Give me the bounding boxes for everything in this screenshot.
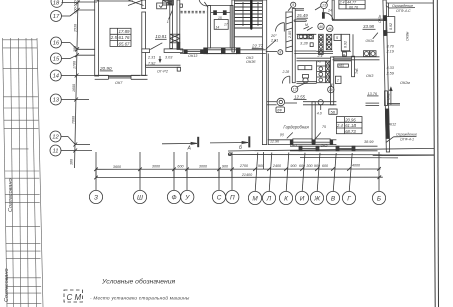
- door jamb big room: [142, 49, 150, 53]
- wall stub left of outer wall: [164, 49, 183, 53]
- room label 20.90: [99, 66, 112, 71]
- double circle node: [277, 98, 285, 106]
- svg-text:2.59: 2.59: [386, 72, 395, 76]
- svg-text:2.4: 2.4: [339, 1, 345, 5]
- door swing arc left of shaft: [199, 0, 207, 6]
- svg-text:75: 75: [322, 125, 326, 129]
- left wall: [95, 0, 99, 76]
- bubble 16: [51, 37, 62, 48]
- svg-text:ПБ3: ПБ3: [290, 144, 297, 148]
- svg-text:600: 600: [322, 164, 329, 168]
- sheet right border: [433, 0, 435, 307]
- hallway inner wall: [170, 5, 173, 48]
- НВ1 box: [338, 64, 349, 67]
- svg-text:С М: С М: [67, 293, 82, 302]
- svg-text:16: 16: [53, 41, 60, 47]
- label 10.81: [155, 34, 167, 39]
- hallway bottom wall: [146, 64, 181, 66]
- svg-text:Согласовано: Согласовано: [4, 268, 10, 302]
- svg-text:44.77: 44.77: [347, 1, 357, 5]
- svg-text:900: 900: [222, 164, 229, 168]
- wardrobe bottom wall with windows: [268, 139, 293, 141]
- room table 24 bottom: [336, 117, 362, 134]
- svg-text:(в): (в): [280, 133, 284, 137]
- label 12.55: [294, 95, 306, 100]
- svg-text:600 600: 600 600: [74, 1, 78, 14]
- svg-text:НВ1: НВ1: [339, 64, 345, 68]
- svg-text:18: 18: [53, 1, 60, 7]
- label 38.99: [364, 140, 374, 144]
- svg-text:7нБ: 7нБ: [355, 68, 359, 74]
- bubble 12: [291, 86, 297, 92]
- bubble 14: [50, 70, 61, 81]
- svg-text:17: 17: [53, 14, 60, 20]
- label M with leaders: [305, 23, 308, 27]
- svg-text:14: 14: [53, 74, 59, 80]
- balcony right narrow: [386, 17, 395, 33]
- witness lines down to bubbles: [95, 169, 97, 190]
- svg-text:3.28: 3.28: [300, 41, 309, 46]
- long slab leader line: [228, 154, 434, 156]
- section marker B: [210, 142, 248, 144]
- dashed corridor lines: [181, 10, 207, 12]
- door circle on wall: [318, 100, 323, 105]
- svg-text:2.5: 2.5: [110, 35, 118, 40]
- 4.33 2.59 labels: [366, 45, 410, 96]
- stamp rotated text Согласовано: [4, 178, 14, 302]
- label 24: [327, 9, 332, 13]
- labels 2.31 7.92: [147, 54, 198, 65]
- svg-text:65.67: 65.67: [119, 41, 131, 46]
- svg-text:ОК3н: ОК3н: [378, 15, 382, 23]
- witness middle segments: [96, 169, 379, 178]
- svg-text:380: 380: [73, 46, 77, 52]
- svg-text:10.81: 10.81: [155, 34, 167, 39]
- wall below: [333, 56, 380, 58]
- bottom wall with window OK7: [95, 74, 109, 76]
- svg-text:м: м: [343, 52, 345, 56]
- kitchen: [297, 33, 317, 35]
- svg-text:ОГ-Р2: ОГ-Р2: [157, 70, 169, 74]
- svg-text:14: 14: [216, 25, 220, 29]
- bubble 9: [291, 2, 296, 7]
- bubble 12: [50, 131, 61, 142]
- svg-text:Б: Б: [377, 195, 381, 202]
- svg-text:3000: 3000: [199, 164, 208, 168]
- svg-text:900: 900: [290, 164, 297, 168]
- label 1 with leader: [167, 20, 169, 24]
- svg-text:33.98: 33.98: [363, 24, 375, 29]
- svg-text:68.73: 68.73: [345, 129, 356, 134]
- svg-text:ОК3б: ОК3б: [246, 60, 256, 64]
- window bay right: [385, 91, 388, 106]
- svg-text:2.4: 2.4: [317, 54, 323, 58]
- svg-text:ЭК12: ЭК12: [388, 123, 397, 127]
- stove symbols 2 top right: [364, 51, 370, 57]
- left wall of right wing (shared with staircase): [262, 0, 266, 145]
- svg-text:8: 8: [279, 51, 281, 55]
- svg-text:7.92: 7.92: [148, 62, 156, 66]
- door arc corridor upper: [276, 23, 285, 32]
- door jamb black: [322, 13, 324, 19]
- svg-text:3.03: 3.03: [165, 56, 173, 60]
- svg-text:20.90: 20.90: [99, 66, 112, 71]
- svg-text:В: В: [331, 195, 336, 202]
- svg-text:Л: Л: [266, 195, 272, 202]
- svg-text:А.Г: А.Г: [317, 60, 323, 64]
- hallway right wall (outer): [177, 0, 180, 50]
- bubble 8: [278, 50, 283, 55]
- svg-text:А: А: [187, 146, 192, 152]
- svg-text:4.0: 4.0: [317, 112, 322, 116]
- closet 5: [334, 34, 341, 40]
- toilet: [303, 75, 309, 79]
- svg-text:5В: 5В: [331, 110, 336, 114]
- vertical dimension line: [75, 0, 79, 168]
- svg-text:66.76: 66.76: [349, 5, 358, 9]
- svg-text:6Ф: 6Ф: [277, 108, 282, 112]
- door arc 24: [325, 13, 333, 20]
- window mark OK7: [115, 81, 123, 85]
- right wall of big room: [142, 0, 146, 9]
- svg-text:15: 15: [53, 57, 60, 63]
- stair stringer: [250, 0, 252, 29]
- electrical box: [157, 3, 167, 9]
- bubble 11: [50, 145, 61, 156]
- door arc corridor: [282, 76, 289, 83]
- svg-text:600: 600: [177, 165, 184, 169]
- svg-text:2700: 2700: [239, 164, 249, 168]
- bubble 19: [328, 86, 334, 92]
- svg-text:22.77: 22.77: [251, 44, 264, 49]
- bubble 18: [51, 0, 63, 7]
- svg-text:12.96: 12.96: [270, 140, 279, 144]
- svg-text:61.76: 61.76: [119, 35, 131, 40]
- wardrobe room walls: [312, 102, 315, 144]
- svg-text:61.1В: 61.1В: [345, 123, 356, 128]
- vent shaft stack: [317, 61, 330, 83]
- left stamp table: [3, 38, 44, 307]
- svg-text:1: 1: [167, 20, 169, 24]
- svg-text:24: 24: [327, 9, 332, 13]
- svg-text:15.49: 15.49: [297, 13, 309, 18]
- svg-text:С: С: [217, 194, 222, 201]
- top wall of room 33.98: [332, 18, 384, 20]
- room table 25: [110, 28, 131, 46]
- vent stack 2 (dark): [326, 34, 331, 49]
- door swing top of big room: [97, 0, 133, 2]
- svg-text:2.28: 2.28: [282, 70, 290, 74]
- vent stack 1: [319, 34, 324, 54]
- svg-text:З: З: [94, 194, 98, 201]
- svg-text:Условные обозначения: Условные обозначения: [101, 278, 176, 286]
- wall below top-left corner: [292, 9, 295, 83]
- elevator car: [214, 20, 228, 30]
- svg-text:- Место установки стиральной м: - Место установки стиральной машины: [90, 295, 190, 301]
- svg-text:19: 19: [329, 88, 333, 92]
- shaft boxes top: [163, 0, 168, 5]
- svg-text:Ф: Ф: [171, 194, 176, 201]
- svg-text:Гардеробная: Гардеробная: [283, 124, 309, 129]
- wall bump: [180, 4, 183, 7]
- machine room boxes bottom: [207, 48, 222, 54]
- CM dashed box: [64, 290, 83, 302]
- balcony pier left: [286, 12, 293, 52]
- svg-text:13: 13: [53, 98, 60, 104]
- crosshatch block between walls: [170, 34, 180, 43]
- leaders from bubbles to dim line: [62, 2, 78, 4]
- svg-text:Согласовано: Согласовано: [8, 178, 14, 212]
- OK12 label: [388, 123, 397, 127]
- svg-text:4000: 4000: [352, 164, 361, 168]
- svg-text:13.76: 13.76: [368, 92, 378, 96]
- svg-text:7600: 7600: [72, 116, 76, 124]
- svg-text:Ш: Ш: [137, 194, 143, 201]
- svg-text:12: 12: [293, 88, 297, 92]
- svg-text:3000: 3000: [152, 165, 161, 169]
- radiator below window: [294, 20, 306, 22]
- svg-text:ОГФ-4-1: ОГФ-4-1: [400, 138, 414, 142]
- tick marks on vertical dim line: [73, 1, 80, 153]
- ticks on dim line 1: [94, 167, 381, 179]
- tiny bubbles near stacks: [318, 23, 324, 29]
- balcony mark ОГР2: [157, 70, 169, 74]
- stair rail lines: [242, 2, 244, 26]
- svg-text:2.4: 2.4: [336, 123, 343, 128]
- wall between 15.49 and 33.98: [332, 0, 334, 20]
- svg-text:3.70: 3.70: [387, 45, 395, 49]
- svg-text:Ограждение: Ограждение: [396, 133, 417, 137]
- svg-text:2.19: 2.19: [386, 50, 395, 54]
- small room 2: [335, 76, 341, 83]
- narrow room right of kitchen: [341, 34, 349, 51]
- labels 4.0 5В: [317, 112, 322, 116]
- washbasin: [298, 66, 312, 70]
- witness lines up from dim line: [95, 152, 97, 169]
- svg-text:2.81: 2.81: [270, 39, 278, 43]
- washing machine box M: [343, 52, 347, 56]
- label 22.77: [251, 44, 264, 49]
- svg-text:1600: 1600: [72, 84, 76, 92]
- Ограждение ОГФ-4-1: [396, 133, 417, 142]
- svg-text:380: 380: [69, 159, 73, 165]
- svg-text:ОК3и: ОК3и: [366, 39, 374, 43]
- vertical text OK8M right: [406, 31, 410, 41]
- letter bubbles: [89, 190, 385, 204]
- label 15.49: [297, 13, 309, 18]
- dimension numbers: [113, 164, 361, 177]
- svg-text:20.96: 20.96: [344, 117, 356, 122]
- svg-text:ОК3: ОК3: [366, 74, 374, 78]
- svg-text:ОК13: ОК13: [188, 54, 198, 58]
- svg-text:27: 27: [318, 37, 323, 41]
- svg-text:900: 900: [314, 164, 321, 168]
- svg-text:2: 2: [336, 79, 339, 83]
- balcony slab bottom right: [228, 148, 434, 151]
- svg-text:1780: 1780: [73, 61, 77, 69]
- svg-text:И: И: [300, 195, 305, 202]
- bubble 15: [51, 53, 62, 64]
- svg-text:11: 11: [52, 149, 58, 155]
- svg-text:12: 12: [52, 135, 59, 141]
- svg-text:9: 9: [292, 3, 294, 7]
- top wall of bathroom: [297, 57, 331, 59]
- bathroom bottom wall: [297, 81, 317, 83]
- kitchen bottom wall: [294, 50, 316, 52]
- svg-text:300: 300: [306, 164, 313, 168]
- bubble 17: [51, 11, 62, 22]
- svg-text:0.92: 0.92: [344, 41, 348, 48]
- svg-text:У: У: [184, 194, 190, 201]
- mid-right wall segment: [366, 102, 380, 104]
- axis lines to the building: [78, 1, 97, 3]
- svg-text:3600: 3600: [113, 165, 122, 169]
- svg-text:ОК7: ОК7: [115, 81, 123, 85]
- svg-text:Г: Г: [347, 195, 351, 202]
- wall stub top of 15.49 room: [295, 8, 304, 10]
- label 33.98: [363, 24, 375, 29]
- corridor room 2.28: [282, 70, 290, 74]
- box БФ: [276, 107, 285, 113]
- svg-text:ОК2м: ОК2м: [400, 81, 410, 85]
- svg-text:2530: 2530: [73, 24, 77, 33]
- bottom wall right section: [290, 145, 378, 147]
- svg-text:ОК8м: ОК8м: [406, 31, 410, 41]
- bubble 13: [321, 2, 328, 9]
- svg-text:15: 15: [218, 16, 222, 20]
- svg-text:21400: 21400: [241, 173, 253, 177]
- svg-text:40: 40: [319, 25, 323, 29]
- svg-text:0.92: 0.92: [389, 23, 393, 30]
- corridor wall: [267, 101, 277, 103]
- door swing hallway: [150, 43, 162, 50]
- svg-text:б: б: [239, 145, 242, 151]
- window direction marks: [287, 133, 293, 139]
- svg-text:ОГФ-4-С: ОГФ-4-С: [396, 9, 411, 13]
- svg-text:П: П: [230, 194, 235, 201]
- svg-text:2.05: 2.05: [288, 31, 292, 39]
- railing top right: Ограждение ОГФ-4-С: [386, 2, 433, 4]
- svg-text:4.33: 4.33: [387, 66, 395, 70]
- svg-text:12.55: 12.55: [294, 95, 306, 100]
- svg-text:М: М: [252, 195, 258, 202]
- svg-text:17.89: 17.89: [119, 29, 131, 34]
- room table 24 (top): [339, 0, 366, 9]
- svg-text:38.99: 38.99: [364, 140, 374, 144]
- rotated dimension numbers: [69, 1, 77, 166]
- leader 20 2.81: [266, 40, 276, 49]
- svg-text:2.31: 2.31: [147, 56, 155, 60]
- svg-text:Ж: Ж: [313, 195, 321, 202]
- svg-text:17: 17: [224, 23, 228, 27]
- svg-text:М: М: [305, 23, 308, 27]
- right outer wall (slightly slanted as in scan): [383, 0, 390, 152]
- svg-text:20°: 20°: [270, 34, 277, 38]
- right room wall: [331, 57, 334, 105]
- section marker A: [162, 142, 197, 144]
- svg-text:2400: 2400: [272, 164, 282, 168]
- bubble 13: [50, 94, 61, 105]
- svg-text:13: 13: [322, 4, 326, 8]
- svg-text:600: 600: [299, 164, 306, 168]
- svg-text:46: 46: [328, 27, 332, 31]
